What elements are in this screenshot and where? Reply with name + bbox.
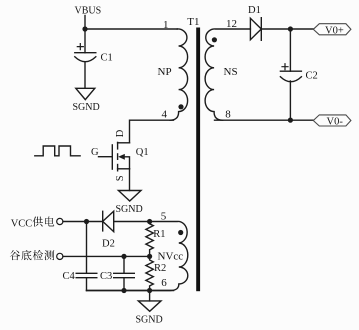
svg-text:6: 6	[161, 277, 167, 289]
svg-text:8: 8	[225, 109, 231, 121]
svg-text:D2: D2	[102, 239, 115, 250]
polarity dot NVcc	[178, 230, 183, 235]
svg-text:V0-: V0-	[327, 117, 344, 128]
wire C2 bottom stem	[289, 81, 291, 120]
wire pin8 to V0-	[215, 119, 314, 121]
wire D2 to pin5	[114, 221, 150, 223]
junction VCC/C4	[84, 219, 89, 224]
square wave symbol	[35, 146, 80, 156]
svg-text:VBUS: VBUS	[75, 6, 102, 17]
svg-text:NP: NP	[158, 66, 172, 78]
svg-text:T1: T1	[187, 16, 199, 28]
svg-text:NS: NS	[224, 66, 238, 78]
winding NP	[170, 29, 188, 120]
svg-text:R1: R1	[153, 229, 165, 240]
junction C3 top	[121, 254, 126, 259]
wire source to ground	[129, 169, 131, 191]
wire ground rail	[87, 290, 174, 292]
svg-text:12: 12	[226, 18, 237, 30]
svg-text:SGND: SGND	[136, 315, 163, 326]
wire gate	[99, 156, 113, 158]
ground SGND bottom	[136, 301, 163, 326]
ground SGND mid	[116, 191, 143, 216]
wire C3 branch	[123, 256, 125, 273]
wire C3 to rail	[123, 278, 125, 291]
junction VBUS/C1/NP	[82, 26, 87, 31]
junction D1/C2/V0+	[288, 26, 293, 31]
diode D2	[102, 211, 115, 249]
wire D1 to V0+	[261, 28, 313, 30]
svg-text:D1: D1	[248, 5, 261, 16]
junction C3/rail	[121, 288, 126, 293]
net label V0+	[313, 24, 351, 37]
svg-text:NVcc: NVcc	[158, 250, 184, 262]
winding NVcc	[87, 221, 188, 290]
wire VCC to D2	[63, 221, 103, 223]
svg-text:S: S	[115, 175, 126, 181]
capacitor C1	[75, 44, 113, 64]
capacitor C2	[280, 64, 317, 82]
wire valley detect	[63, 255, 150, 257]
wire C4 to rail	[86, 278, 88, 291]
ground SGND top	[73, 88, 100, 113]
svg-text:D: D	[115, 129, 126, 137]
polarity dot NP	[178, 104, 183, 109]
wire VBUS stem	[84, 16, 86, 53]
diode D1	[248, 5, 261, 41]
svg-text:C3: C3	[100, 271, 112, 282]
svg-text:Q1: Q1	[136, 147, 149, 158]
junction D2/R1/pin5	[147, 219, 152, 224]
wire pin1	[85, 28, 177, 30]
junction pin8/C2/V0-	[288, 118, 293, 123]
wire pin4 to drain	[130, 120, 174, 143]
junction R1/R2	[147, 254, 152, 259]
svg-text:C4: C4	[63, 271, 76, 282]
net label V0-	[313, 115, 351, 128]
node VCC supply terminal	[11, 217, 63, 230]
junction R2/rail	[147, 288, 152, 293]
winding NS	[205, 29, 250, 120]
transistor Q1	[112, 129, 148, 181]
svg-text:VCC: VCC	[11, 219, 33, 230]
wire C2 top stem	[289, 29, 291, 71]
transformer T1 core	[196, 28, 200, 292]
svg-text:5: 5	[161, 211, 167, 223]
svg-text:C2: C2	[306, 70, 318, 81]
svg-text:C1: C1	[101, 53, 113, 64]
svg-text:1: 1	[163, 19, 169, 31]
capacitor C3	[100, 271, 134, 282]
wire C1 to ground	[84, 62, 86, 88]
polarity dot NS	[212, 37, 217, 42]
wire C4 branch	[86, 222, 88, 274]
svg-text:V0+: V0+	[325, 25, 344, 36]
svg-text:SGND: SGND	[73, 102, 100, 113]
capacitor C4	[63, 271, 97, 282]
resistor R2	[146, 256, 166, 290]
svg-text:SGND: SGND	[116, 204, 143, 215]
svg-text:4: 4	[162, 109, 168, 121]
wire rail to ground	[149, 291, 151, 301]
resistor R1	[146, 222, 166, 257]
node valley detect terminal	[10, 250, 63, 260]
svg-text:R2: R2	[154, 263, 166, 274]
